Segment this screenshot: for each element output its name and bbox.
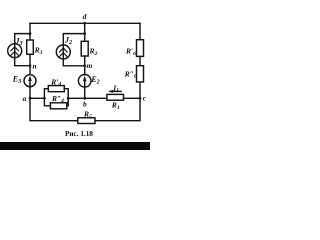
wire: a to split (30, 97, 44, 99)
svg-text:a: a (23, 94, 27, 103)
resistor R''4 (50, 103, 66, 109)
svg-text:R3: R3 (34, 45, 43, 56)
wire: bottom rail right (95, 98, 140, 120)
wire: J3 top lead (15, 34, 30, 44)
svg-text:R″6: R″6 (124, 69, 137, 79)
resistor R'4 (48, 86, 64, 92)
node split left (43, 97, 46, 100)
resistor R1 (107, 94, 124, 100)
wire: m to E2 (84, 66, 86, 75)
wire: J2 top lead (63, 34, 84, 45)
wire: R''6 to c (139, 82, 141, 98)
node merge right (67, 97, 70, 100)
wire: merge to b (68, 97, 85, 99)
wire: left riser top (29, 23, 31, 33)
svg-text:E3: E3 (12, 74, 21, 85)
node junction R2 top (83, 32, 86, 35)
current source J3 (8, 44, 22, 58)
svg-text:R′4: R′4 (50, 77, 61, 87)
svg-text:R5: R5 (83, 110, 92, 120)
wire: J3 bottom lead (15, 58, 30, 66)
node n (29, 64, 32, 67)
svg-text:J2: J2 (64, 36, 72, 47)
node junction R3 top (29, 32, 32, 35)
wire: d riser (84, 23, 86, 33)
svg-text:R″4: R″4 (51, 94, 64, 104)
svg-text:E2: E2 (90, 75, 99, 86)
svg-text:R2: R2 (89, 46, 98, 57)
svg-text:m: m (87, 61, 93, 70)
wire: b to R1 (85, 97, 107, 99)
svg-text:d: d (83, 12, 87, 21)
wire: J2 bottom lead (63, 59, 84, 66)
node d (83, 22, 86, 25)
svg-text:c: c (143, 94, 147, 103)
wire: R'4 branch left (44, 89, 48, 99)
svg-text:Рис. 1.18: Рис. 1.18 (65, 130, 93, 138)
node m (83, 64, 86, 67)
wire: R1 to c (124, 97, 141, 99)
current source J2 (56, 45, 70, 59)
svg-text:n: n (33, 61, 37, 70)
wire: E3 to a (29, 87, 31, 99)
resistor R'6 (137, 40, 144, 57)
source E2 (78, 75, 91, 88)
current arrow I1 (110, 90, 121, 92)
resistor R3 (29, 34, 31, 40)
svg-text:J3: J3 (15, 36, 23, 47)
svg-text:b: b (83, 99, 87, 108)
wire: top bus d (30, 22, 140, 24)
source E3 (24, 75, 36, 87)
wire: R''4 branch left (44, 98, 50, 106)
node c (139, 97, 142, 100)
resistor R2 (84, 34, 86, 42)
wire: R6 connector (139, 56, 141, 65)
svg-text:R1: R1 (111, 100, 120, 111)
svg-text:R′6: R′6 (125, 47, 136, 57)
node a (29, 97, 32, 100)
bottom black band (0, 142, 150, 150)
resistor R''6 (137, 66, 144, 82)
wire: E2 to b (84, 87, 86, 98)
node b (83, 97, 86, 100)
svg-text:I1: I1 (112, 83, 119, 93)
wire: right column top (139, 23, 141, 39)
resistor R5 (78, 118, 95, 124)
wire: left drop to bottom rail (30, 98, 78, 120)
wire: R''4 branch right (67, 98, 68, 106)
wire: n to E3 (29, 66, 31, 75)
wire: R'4 branch right (64, 89, 68, 99)
